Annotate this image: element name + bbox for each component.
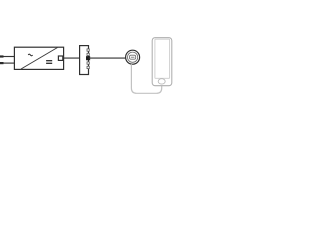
phone home button <box>158 79 165 84</box>
AC/DC divider diagonal <box>21 48 58 70</box>
pin 1 <box>87 49 89 51</box>
USB port on adapter <box>58 56 62 60</box>
DC symbol = <box>46 61 52 64</box>
phone screen <box>155 39 170 78</box>
pin 4 <box>87 62 89 64</box>
cable: plug to phone <box>131 64 161 93</box>
pin 5 <box>87 66 89 68</box>
wire: top mains prong <box>0 56 15 58</box>
round plug inner ring <box>128 52 138 62</box>
round plug outer ring <box>126 50 140 64</box>
phone body <box>152 38 172 86</box>
pin 2 <box>87 53 89 55</box>
connector bar <box>80 46 89 75</box>
wire: bar to round plug <box>89 57 126 59</box>
AC symbol ~ <box>28 54 32 56</box>
power adapter body <box>14 47 63 69</box>
pin 3 (connected, filled) <box>86 56 90 60</box>
plug face connector <box>130 55 136 59</box>
wire: bottom mains prong <box>0 62 15 64</box>
wire: adapter to connector bar <box>64 57 80 59</box>
